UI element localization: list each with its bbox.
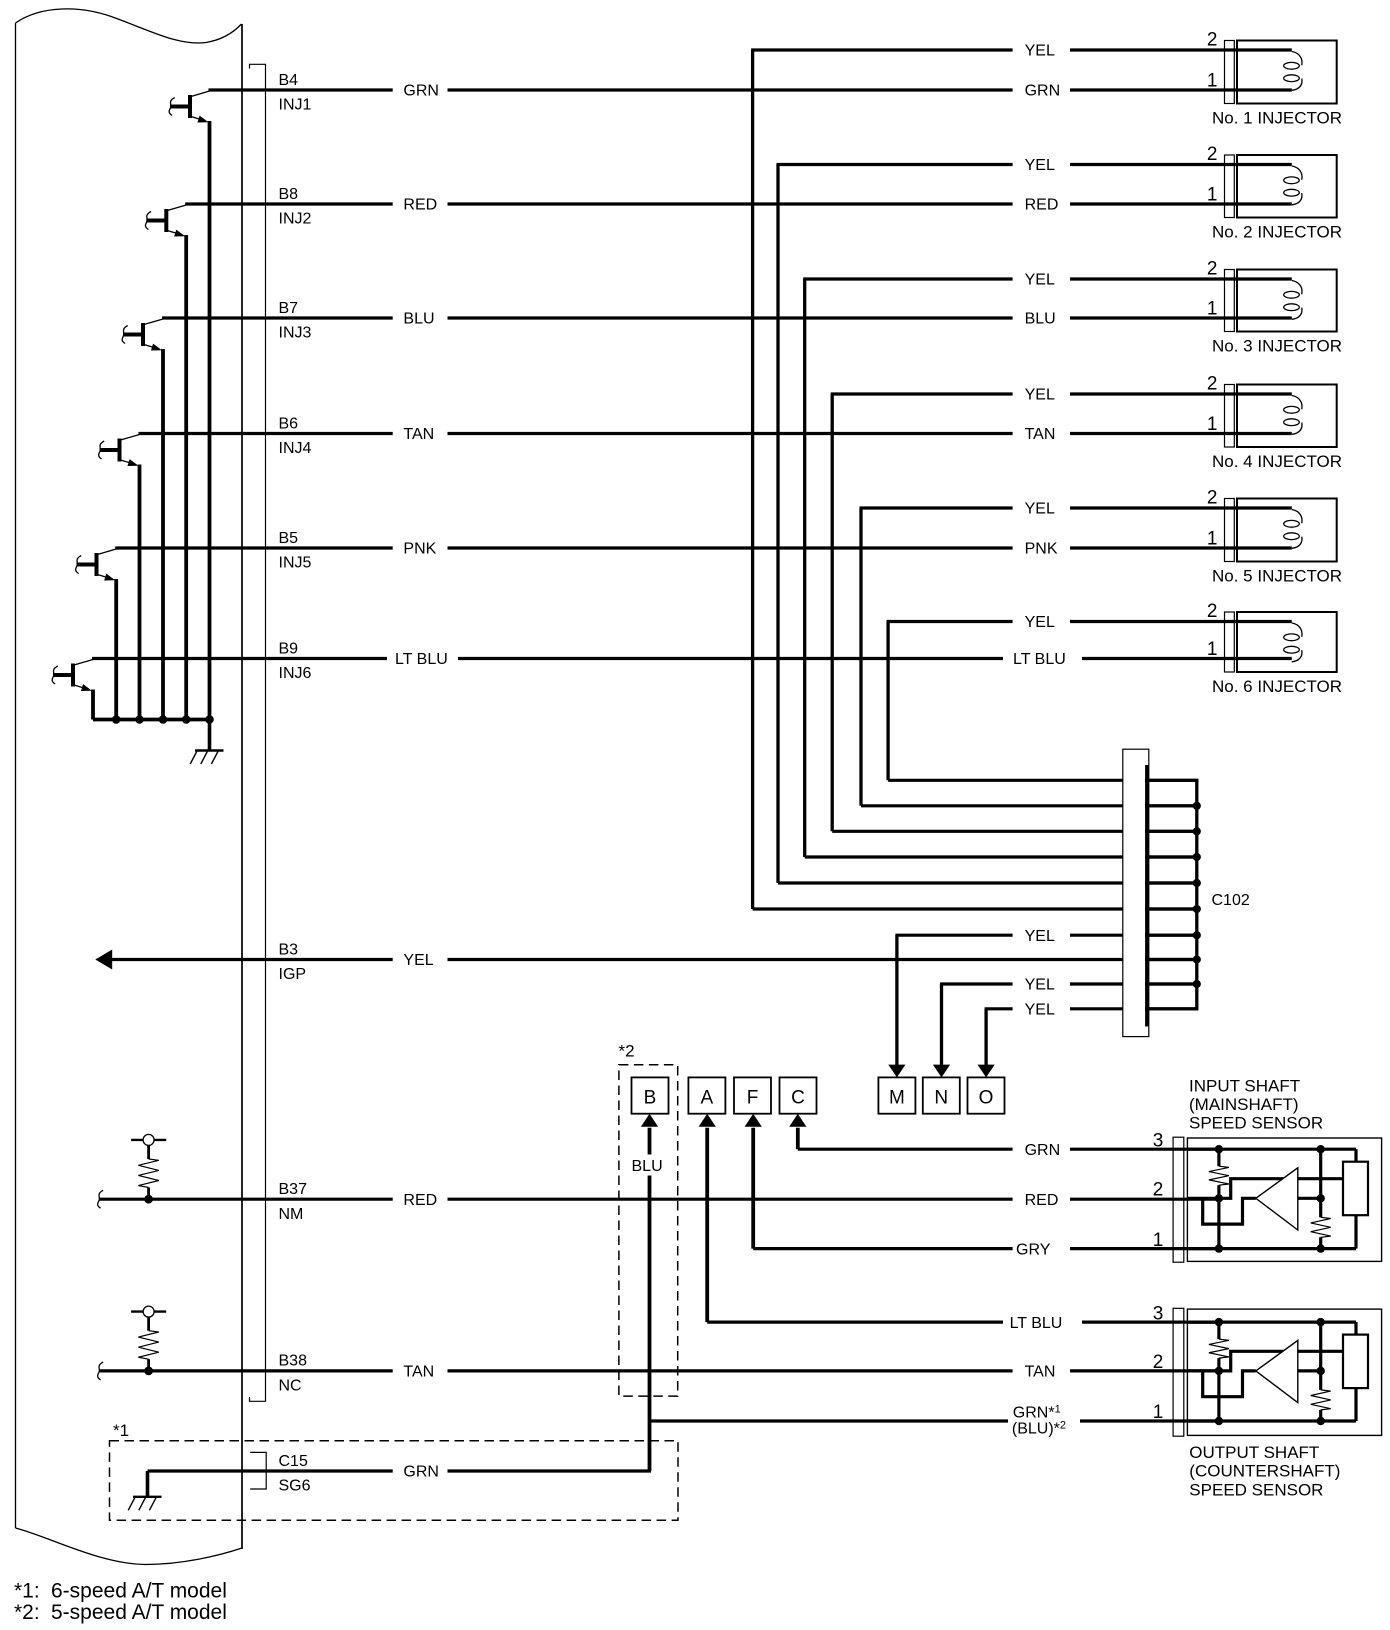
svg-text:2: 2: [1153, 1180, 1164, 1201]
svg-text:(COUNTERSHAFT): (COUNTERSHAFT): [1189, 1462, 1340, 1481]
svg-text:SG6: SG6: [279, 1478, 311, 1495]
svg-text:TAN: TAN: [1025, 1364, 1056, 1381]
svg-text:BLU: BLU: [1025, 311, 1056, 328]
svg-text:YEL: YEL: [1025, 501, 1055, 518]
svg-text:YEL: YEL: [1025, 928, 1055, 945]
svg-text:1: 1: [1207, 529, 1218, 550]
svg-text:INJ4: INJ4: [279, 440, 312, 457]
svg-text:INJ1: INJ1: [279, 97, 312, 114]
svg-text:No. 6 INJECTOR: No. 6 INJECTOR: [1212, 677, 1342, 696]
svg-text:B7: B7: [279, 300, 299, 317]
svg-text:LT BLU: LT BLU: [1013, 651, 1066, 668]
svg-text:No. 2 INJECTOR: No. 2 INJECTOR: [1212, 223, 1342, 242]
svg-text:TAN: TAN: [403, 1364, 434, 1381]
svg-text:B5: B5: [279, 530, 299, 547]
svg-text:SPEED SENSOR: SPEED SENSOR: [1189, 1114, 1323, 1133]
svg-text:YEL: YEL: [1025, 43, 1055, 60]
svg-text:GRY: GRY: [1016, 1241, 1051, 1258]
svg-text:YEL: YEL: [1025, 614, 1055, 631]
svg-text:INJ2: INJ2: [279, 211, 312, 228]
svg-text:2: 2: [1207, 144, 1218, 165]
svg-text:SPEED SENSOR: SPEED SENSOR: [1189, 1481, 1323, 1500]
svg-text:B3: B3: [279, 941, 299, 958]
svg-text:C: C: [791, 1088, 805, 1109]
svg-text:6-speed A/T model: 6-speed A/T model: [51, 1579, 227, 1602]
svg-text:2: 2: [1207, 374, 1218, 395]
svg-text:M: M: [889, 1088, 905, 1109]
svg-text:YEL: YEL: [1025, 977, 1055, 994]
svg-text:2: 2: [1207, 259, 1218, 280]
svg-text:IGP: IGP: [279, 966, 307, 983]
svg-text:INPUT SHAFT: INPUT SHAFT: [1189, 1077, 1300, 1096]
svg-text:GRN: GRN: [1025, 83, 1061, 100]
svg-text:TAN: TAN: [1025, 426, 1056, 443]
svg-text:GRN: GRN: [1025, 1142, 1061, 1159]
svg-text:BLU: BLU: [403, 311, 434, 328]
svg-text:1: 1: [1207, 639, 1218, 660]
svg-text:No. 5 INJECTOR: No. 5 INJECTOR: [1212, 567, 1342, 586]
svg-text:GRN: GRN: [403, 83, 439, 100]
svg-text:1: 1: [1207, 414, 1218, 435]
svg-text:(BLU)*2: (BLU)*2: [1012, 1420, 1066, 1438]
svg-text:C102: C102: [1212, 892, 1250, 909]
svg-text:(MAINSHAFT): (MAINSHAFT): [1189, 1095, 1299, 1114]
svg-text:RED: RED: [1025, 1192, 1059, 1209]
svg-text:OUTPUT SHAFT: OUTPUT SHAFT: [1189, 1443, 1319, 1462]
svg-text:F: F: [747, 1088, 759, 1109]
svg-text:2: 2: [1153, 1352, 1164, 1373]
svg-text:No. 1 INJECTOR: No. 1 INJECTOR: [1212, 109, 1342, 128]
svg-text:B9: B9: [279, 640, 299, 657]
svg-text:LT BLU: LT BLU: [1010, 1315, 1063, 1332]
svg-text:3: 3: [1153, 1130, 1164, 1151]
svg-text:RED: RED: [1025, 197, 1059, 214]
svg-text:YEL: YEL: [1025, 157, 1055, 174]
svg-text:5-speed A/T model: 5-speed A/T model: [51, 1601, 227, 1624]
svg-text:2: 2: [1207, 601, 1218, 622]
svg-text:*1: *1: [113, 1421, 129, 1440]
svg-text:No. 3 INJECTOR: No. 3 INJECTOR: [1212, 337, 1342, 356]
svg-text:No. 4 INJECTOR: No. 4 INJECTOR: [1212, 452, 1342, 471]
svg-text:INJ6: INJ6: [279, 665, 312, 682]
svg-text:B37: B37: [279, 1181, 308, 1198]
svg-text:B8: B8: [279, 186, 299, 203]
svg-text:NC: NC: [279, 1378, 302, 1395]
svg-text:B6: B6: [279, 415, 299, 432]
svg-text:N: N: [934, 1088, 948, 1109]
svg-text:1: 1: [1207, 299, 1218, 320]
svg-text:1: 1: [1207, 71, 1218, 92]
svg-text:BLU: BLU: [632, 1158, 663, 1175]
svg-text:LT BLU: LT BLU: [395, 651, 448, 668]
svg-text:INJ5: INJ5: [279, 555, 312, 572]
svg-text:RED: RED: [403, 197, 437, 214]
svg-text:2: 2: [1207, 488, 1218, 509]
svg-text:3: 3: [1153, 1303, 1164, 1324]
svg-text:O: O: [979, 1088, 994, 1109]
svg-text:YEL: YEL: [1025, 272, 1055, 289]
svg-text:1: 1: [1207, 185, 1218, 206]
svg-text:TAN: TAN: [403, 426, 434, 443]
svg-text:GRN*1: GRN*1: [1013, 1404, 1061, 1422]
svg-text:YEL: YEL: [1025, 387, 1055, 404]
svg-text:B38: B38: [279, 1353, 308, 1370]
svg-text:PNK: PNK: [1025, 541, 1058, 558]
svg-text:2: 2: [1207, 30, 1218, 51]
svg-text:*2:: *2:: [14, 1601, 40, 1624]
svg-text:PNK: PNK: [403, 541, 436, 558]
svg-text:B4: B4: [279, 72, 299, 89]
svg-text:1: 1: [1153, 1402, 1164, 1423]
svg-text:A: A: [701, 1088, 714, 1109]
svg-text:YEL: YEL: [403, 952, 433, 969]
svg-text:*1:: *1:: [14, 1579, 40, 1602]
svg-text:C15: C15: [279, 1453, 308, 1470]
svg-text:B: B: [644, 1088, 657, 1109]
svg-text:RED: RED: [403, 1192, 437, 1209]
svg-text:1: 1: [1153, 1230, 1164, 1251]
svg-text:GRN: GRN: [403, 1464, 439, 1481]
svg-text:INJ3: INJ3: [279, 325, 312, 342]
svg-text:YEL: YEL: [1025, 1002, 1055, 1019]
svg-text:*2: *2: [619, 1042, 635, 1061]
svg-text:NM: NM: [279, 1206, 304, 1223]
